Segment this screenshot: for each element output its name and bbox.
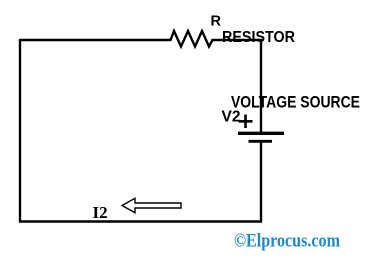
battery V2 negative plate (short) [249,140,273,143]
wire: top-left segment from resistor to left corner [19,39,167,41]
resistor R zigzag body [167,31,216,47]
wire: top-right segment from resistor to top-right corner [216,39,262,41]
svg-text:RESISTOR: RESISTOR [222,29,295,46]
wire: left vertical side [19,39,21,222]
wire: bottom horizontal side [19,220,262,223]
svg-text:©Elprocus.com: ©Elprocus.com [234,231,340,252]
wire: right side lower (battery minus to bottom corner) [260,142,262,223]
svg-text:R: R [211,14,222,30]
current direction arrow (points left) [122,198,181,212]
svg-text:V2: V2 [222,109,241,126]
svg-text:VOLTAGE SOURCE: VOLTAGE SOURCE [231,93,360,112]
battery V2 positive plate (long) [238,132,284,135]
plus sign (battery positive polarity mark) [239,115,253,129]
wire: right side upper (top corner to battery plus plate) [260,39,262,133]
svg-text:I2: I2 [93,203,108,222]
